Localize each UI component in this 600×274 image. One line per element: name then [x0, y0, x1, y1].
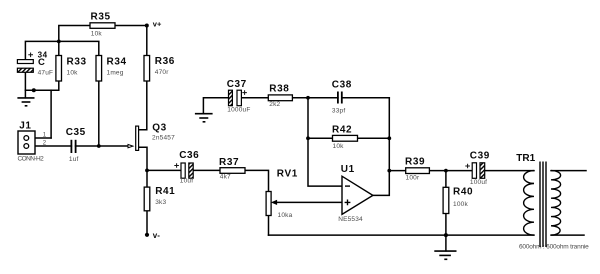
svg-text:33pf: 33pf	[332, 108, 345, 115]
svg-text:C: C	[38, 57, 45, 68]
svg-text:Q3: Q3	[152, 123, 167, 134]
svg-text:1uf: 1uf	[69, 156, 79, 163]
svg-text:3k3: 3k3	[155, 199, 166, 206]
svg-text:R38: R38	[269, 84, 289, 95]
svg-text:v-: v-	[153, 231, 160, 240]
svg-text:TR1: TR1	[516, 153, 535, 164]
svg-text:C37: C37	[227, 79, 247, 90]
svg-text:10uf: 10uf	[180, 178, 193, 185]
svg-text:RV1: RV1	[277, 168, 298, 179]
svg-text:R34: R34	[107, 56, 127, 67]
svg-text:R36: R36	[155, 56, 175, 67]
svg-text:R35: R35	[91, 12, 111, 23]
svg-text:R39: R39	[405, 157, 425, 168]
svg-text:100k: 100k	[453, 201, 468, 208]
svg-text:2: 2	[43, 140, 47, 146]
svg-text:C35: C35	[66, 127, 86, 138]
svg-text:CONN-H2: CONN-H2	[18, 155, 45, 162]
svg-text:R42: R42	[332, 125, 352, 136]
svg-text:10ka: 10ka	[278, 212, 293, 219]
svg-text:600ohm : 600ohm trannie: 600ohm : 600ohm trannie	[519, 244, 589, 251]
svg-text:C36: C36	[179, 150, 199, 161]
svg-text:47uF: 47uF	[38, 70, 54, 77]
svg-text:1000uF: 1000uF	[227, 106, 250, 113]
svg-text:100uf: 100uf	[470, 179, 487, 186]
svg-text:4k7: 4k7	[220, 174, 231, 181]
svg-text:R40: R40	[453, 186, 473, 197]
svg-text:C38: C38	[332, 80, 352, 91]
svg-text:10k: 10k	[91, 30, 103, 37]
svg-text:100r: 100r	[406, 175, 420, 182]
svg-text:C39: C39	[470, 150, 490, 161]
svg-text:R41: R41	[155, 186, 175, 197]
svg-text:U1: U1	[341, 164, 355, 175]
svg-text:1: 1	[43, 132, 47, 138]
svg-text:R37: R37	[219, 157, 239, 168]
svg-text:2n5457: 2n5457	[152, 135, 175, 142]
svg-text:v+: v+	[153, 20, 162, 29]
svg-text:470r: 470r	[155, 69, 169, 76]
svg-text:2k2: 2k2	[269, 101, 280, 108]
svg-text:R33: R33	[67, 56, 87, 67]
svg-text:1meg: 1meg	[107, 69, 124, 76]
svg-text:J1: J1	[19, 121, 31, 132]
svg-text:10k: 10k	[67, 69, 79, 76]
svg-text:NE5534: NE5534	[338, 216, 363, 223]
svg-text:10k: 10k	[333, 143, 345, 150]
